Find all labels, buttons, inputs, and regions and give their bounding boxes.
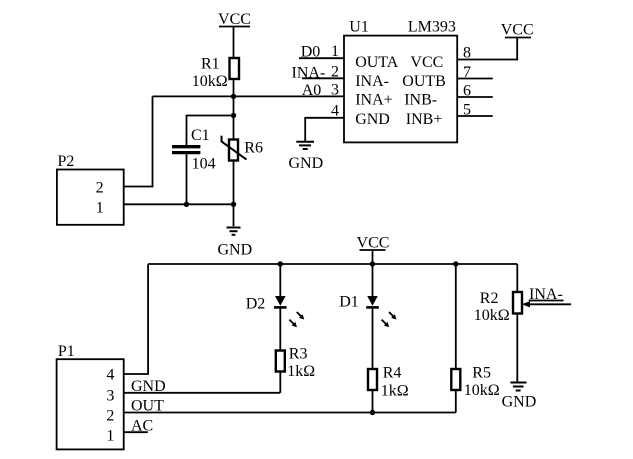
svg-text:R5: R5 (472, 365, 491, 382)
wire pin 8 to VCC (457, 38, 517, 60)
svg-text:D1: D1 (339, 294, 359, 311)
svg-text:INB-: INB- (404, 92, 437, 109)
junction D1 top (370, 261, 375, 266)
junction C1 branch (231, 113, 236, 118)
wire rail to P1 pin 4 (124, 264, 148, 374)
node A0 wire (long horizontal to IC pin 3) (153, 95, 345, 97)
wire pin 1 (D0) (299, 57, 344, 59)
wire rail to R2 (516, 264, 518, 292)
wire VCC to rail (372, 250, 374, 264)
svg-text:10kΩ: 10kΩ (464, 382, 500, 399)
resistor R2 (474, 290, 522, 324)
svg-text:104: 104 (192, 155, 216, 172)
wire P1 pin 2 OUT row (124, 412, 456, 414)
svg-text:R4: R4 (383, 364, 402, 381)
svg-text:4: 4 (331, 103, 339, 120)
svg-text:VCC: VCC (501, 22, 534, 39)
wire D2 to R3 (279, 307, 281, 350)
wire P1 pin 3 GND row (124, 392, 281, 394)
svg-text:INB+: INB+ (406, 111, 443, 128)
wire P1 pin 1 AC stub (124, 431, 148, 433)
svg-text:10kΩ: 10kΩ (192, 73, 228, 90)
svg-text:1kΩ: 1kΩ (287, 363, 315, 380)
wire junction to junction (233, 96, 235, 115)
svg-text:GND: GND (218, 242, 253, 259)
wire pin 7 (457, 78, 493, 80)
svg-text:1: 1 (96, 200, 104, 217)
wire pin 4 (305, 118, 344, 141)
thermistor R6 (222, 136, 263, 161)
svg-text:8: 8 (463, 45, 471, 62)
junction C1 bottom (184, 202, 189, 207)
svg-text:7: 7 (463, 64, 471, 81)
wire R6 bottom (233, 160, 235, 204)
svg-text:INA+: INA+ (355, 92, 392, 109)
svg-text:3: 3 (331, 82, 339, 99)
svg-text:OUT: OUT (131, 398, 164, 415)
wire pin 6 (457, 96, 493, 98)
wire R3 to GND row (279, 372, 281, 393)
wire D1 to R4 (372, 307, 374, 369)
svg-text:LM393: LM393 (408, 18, 456, 35)
svg-text:D0: D0 (301, 44, 321, 61)
wire to C1 top (187, 116, 234, 146)
svg-text:5: 5 (463, 102, 471, 119)
wire R1 to node A0 (233, 79, 235, 96)
svg-text:R6: R6 (244, 139, 263, 156)
op-amp U1 LM393 (344, 18, 457, 142)
svg-text:D2: D2 (246, 296, 266, 313)
svg-text:A0: A0 (302, 82, 322, 99)
svg-text:U1: U1 (349, 18, 369, 35)
resistor R5 (451, 365, 500, 399)
svg-text:P1: P1 (58, 343, 75, 360)
wire R4 to OUT row (372, 390, 374, 413)
wire rail to D1 (372, 264, 374, 296)
LED D1 (339, 294, 396, 328)
svg-text:4: 4 (106, 367, 114, 384)
wire junction to R6 (233, 116, 235, 141)
svg-text:INA-: INA- (292, 64, 326, 81)
LED D2 (246, 296, 305, 328)
junction D2 top (278, 261, 283, 266)
capacitor C1 (172, 127, 216, 172)
svg-text:OUTB: OUTB (402, 73, 446, 90)
svg-text:GND: GND (289, 155, 324, 172)
connector P2 (57, 153, 124, 225)
wire VCC rail (bottom section) (148, 263, 517, 265)
wire R5 to OUT row (455, 390, 457, 413)
svg-text:R1: R1 (201, 55, 220, 72)
svg-text:GND: GND (131, 378, 166, 395)
junction R1 bottom (231, 94, 236, 99)
wire P2 pin1 row (124, 203, 234, 205)
wire pin 5 (457, 115, 493, 117)
resistor R4 (368, 364, 409, 399)
resistor R1 (192, 55, 239, 90)
svg-text:2: 2 (106, 408, 114, 425)
svg-text:AC: AC (131, 418, 153, 435)
wire P2 pin2 (124, 96, 153, 186)
node INA- (arrow into R2) (522, 286, 572, 307)
power symbol VCC (right) (501, 22, 534, 39)
svg-text:P2: P2 (58, 153, 75, 170)
svg-text:1: 1 (106, 428, 114, 445)
svg-text:OUTA: OUTA (355, 54, 399, 71)
ground GND (IC pin 4) (289, 142, 324, 172)
wire rail to D2 (279, 264, 281, 296)
svg-text:1kΩ: 1kΩ (381, 382, 409, 399)
svg-text:2: 2 (96, 180, 104, 197)
svg-text:VCC: VCC (218, 11, 251, 28)
svg-text:C1: C1 (191, 127, 210, 144)
svg-text:R2: R2 (480, 290, 499, 307)
wire R2 to ground (516, 314, 518, 382)
junction R5 top (453, 261, 458, 266)
power symbol VCC (top left) (218, 11, 251, 28)
junction R4 bottom (370, 410, 375, 415)
power symbol VCC (bottom) (357, 235, 390, 252)
wire VCC to R1 (233, 27, 235, 59)
connector P1 (57, 343, 124, 449)
svg-text:GND: GND (502, 394, 537, 411)
svg-text:INA-: INA- (355, 73, 389, 90)
svg-text:3: 3 (106, 388, 114, 405)
junction R6 bottom (231, 202, 236, 207)
svg-text:R3: R3 (289, 346, 308, 363)
svg-text:2: 2 (331, 64, 339, 81)
resistor R3 (276, 346, 316, 381)
svg-text:GND: GND (355, 111, 390, 128)
ground GND (below R2) (502, 383, 537, 411)
svg-text:VCC: VCC (357, 235, 390, 252)
ground GND (below R6) (218, 228, 253, 259)
wire pin 2 (INA-) (302, 77, 344, 79)
svg-text:1: 1 (331, 43, 339, 60)
wire to ground (233, 204, 235, 226)
wire rail to R5 (455, 264, 457, 369)
svg-text:6: 6 (463, 83, 471, 100)
wire C1 bottom (186, 154, 188, 204)
svg-text:VCC: VCC (410, 54, 443, 71)
svg-text:10kΩ: 10kΩ (474, 307, 510, 324)
